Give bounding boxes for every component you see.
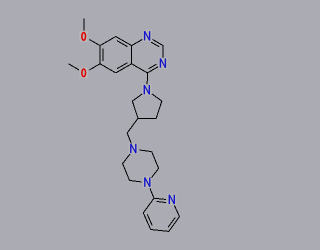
atom Ny1 (N) [167,194,176,205]
bond Cy6-Cy5 (double) [168,217,179,232]
bond Cq6-Nq1 [123,154,130,164]
bond C4a-C8a [131,46,133,64]
bond Nq4-Cq5 [130,180,142,182]
bond O7-C7 [89,40,100,46]
bond Cp2-Cp3 [132,101,138,118]
bond Cp3-CH2 [127,118,138,133]
bond Cy2-Ny1 (double) [154,198,166,202]
bond CH2-Nq1 [127,133,131,144]
bond Cq3-Nq4 [151,168,158,178]
bond C8-C8a (double) [116,37,132,47]
bond C5-C6 [100,64,116,73]
atom Np (N) [142,84,151,95]
atom Nq4 (N) [143,177,152,188]
bond Cy4-Cy3 (double) [143,213,152,230]
atom Nq1 (N) [129,143,138,154]
bond Cp4-Cp5 [156,101,162,118]
atom O6 (O) [79,67,88,78]
bond O6-Me6 [69,64,80,70]
molecule structure diagram [0,0,250,250]
bond Cy3-Cy2 [143,198,154,213]
bond Me7-O7 [83,18,85,30]
bond Cp3-Cp4 [138,117,156,119]
bond C8a-N1 [132,40,143,46]
bond C2-N3 [162,46,164,58]
atom N3 (N) [158,58,167,69]
bond C6-C7 (double) [100,46,103,64]
bond Cq2-Cq3 [152,152,159,169]
bond Nq1-Cq2 [140,150,152,152]
bond Ny1-Cy6 [175,206,180,217]
bond N1-C2 (double) [151,40,163,47]
bond Nq4-Cy2 [150,188,154,198]
atom N1 (N) [143,30,152,41]
bond Cq5-Cq6 [123,164,130,181]
atom O7 (O) [79,31,88,42]
bond Cy5-Cy4 [151,230,169,232]
bond N3-C4 (double) [147,64,158,73]
bond C4a-C5 (double) [116,63,132,73]
bond Np-Cp2 [132,94,142,101]
bond C4-C4a [132,64,148,73]
bond C4-Np [146,73,148,85]
bond C6-O6 [89,64,100,70]
bond C7-C8 [100,37,116,46]
bond Cp5-Np [152,94,162,101]
